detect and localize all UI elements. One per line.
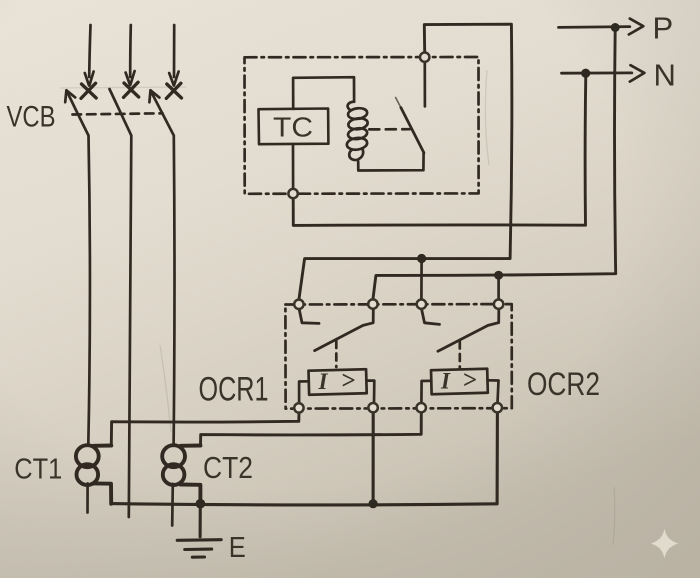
svg-text:I: I [440,368,451,393]
svg-text:VCB: VCB [7,101,56,134]
svg-text:>: > [342,368,356,395]
svg-text:N: N [654,58,676,93]
svg-text:OCR2: OCR2 [527,366,600,402]
svg-text:CT2: CT2 [203,450,253,485]
svg-text:P: P [653,11,674,46]
svg-text:I: I [318,369,329,394]
svg-text:CT1: CT1 [14,453,62,485]
svg-text:TC: TC [273,111,313,142]
svg-text:>: > [463,367,477,394]
svg-text:OCR1: OCR1 [199,371,269,409]
svg-text:E: E [229,532,246,564]
